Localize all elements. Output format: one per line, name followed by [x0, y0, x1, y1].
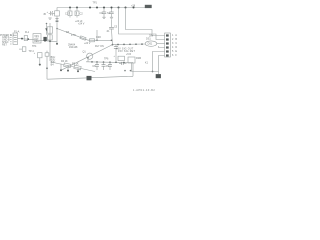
svg-text:+: +: [34, 52, 36, 55]
svg-text:DS1: DS1: [148, 43, 153, 46]
label: [95, 45, 104, 48]
net flag: [56, 20, 59, 22]
junction dot: [135, 43, 137, 45]
svg-text:+28: +28: [131, 4, 136, 7]
junction dot: [56, 28, 58, 30]
svg-text:R2M: R2M: [136, 57, 141, 60]
label rows: [116, 47, 136, 56]
svg-text:RLY ON: RLY ON: [95, 45, 104, 48]
IC U1: [33, 34, 41, 43]
box component K2: [19, 47, 26, 52]
svg-text:REG: REG: [34, 40, 39, 43]
wire vertical mid x50: [49, 23, 51, 61]
wire diagonal D1: [57, 29, 88, 41]
svg-text:5 E: 5 E: [172, 50, 178, 53]
svg-text:+: +: [114, 55, 116, 58]
wire pin5 down-left: [153, 52, 165, 72]
svg-text:P1-A: P1-A: [14, 31, 20, 34]
svg-text:6 F: 6 F: [172, 54, 178, 57]
capacitor C1: [43, 11, 54, 16]
value label text blob: [75, 20, 85, 26]
svg-text:DS1: DS1: [146, 38, 151, 41]
label TP4: [29, 45, 38, 53]
junction dot: [125, 7, 127, 9]
junction dot: [69, 7, 71, 9]
svg-text:CR2: CR2: [96, 36, 101, 39]
electrolytic plus label: [114, 55, 116, 58]
svg-text:+5 R: +5 R: [126, 53, 131, 56]
junction dot: [27, 38, 29, 40]
label R3: [66, 31, 76, 37]
label rows bottom: [68, 44, 78, 50]
capacitor C8: [102, 62, 110, 70]
wire lamp to pin3: [157, 43, 165, 45]
svg-text:1N4148: 1N4148: [69, 46, 78, 49]
svg-text:RET: RET: [2, 43, 7, 46]
junction dot: [129, 43, 131, 45]
svg-text:1 A: 1 A: [172, 34, 178, 37]
svg-text:TP6: TP6: [104, 57, 109, 60]
junction dot: [123, 62, 125, 64]
wire top power rail: [57, 7, 146, 9]
resistor R3 on diagonal: [64, 63, 71, 68]
junction dot: [96, 39, 98, 41]
junction dot: [56, 43, 58, 45]
box component below R2: [47, 35, 52, 40]
junction dot: [117, 44, 119, 46]
ground: [102, 17, 105, 18]
relay K1 dark body: [156, 74, 161, 78]
svg-text:2 B: 2 B: [172, 38, 178, 41]
wire right end vertical x133: [132, 63, 134, 77]
polarized cap dark body: [43, 37, 46, 41]
capacitor C5: [107, 8, 114, 18]
junction dot: [130, 70, 132, 72]
connector J1 left: [13, 33, 18, 44]
svg-text:4 D: 4 D: [172, 46, 178, 49]
net name text rows: [51, 56, 56, 67]
wire pin4 stub: [159, 46, 165, 48]
svg-text:1-APN1-4F-B2: 1-APN1-4F-B2: [133, 89, 155, 92]
label dash: [131, 4, 136, 7]
label above R3: [61, 60, 68, 63]
junction dot: [111, 7, 113, 9]
node TP label: [93, 2, 98, 5]
svg-text:R4 1K: R4 1K: [61, 60, 68, 63]
wire from rail to connector pin 2: [119, 8, 165, 40]
svg-text:28V: 28V: [149, 35, 154, 38]
pin number labels: [172, 34, 178, 57]
power flag arrow: [46, 24, 48, 35]
junction dot: [67, 70, 69, 72]
ground: [48, 18, 51, 19]
lamp DS1: [145, 35, 157, 47]
junction dot: [44, 40, 46, 42]
svg-text:4.7K: 4.7K: [71, 34, 76, 37]
wire vertical bus with capacitor C6: [106, 19, 118, 44]
wire mid-left horizontal: [18, 38, 57, 42]
svg-text:+: +: [47, 11, 49, 14]
junction dot: [109, 61, 111, 63]
junction dot: [124, 70, 126, 72]
capacitor C2: [65, 8, 72, 18]
box component R5: [128, 57, 141, 72]
capacitor C9: [108, 62, 112, 70]
diode CR1: [34, 52, 42, 64]
capacitor C4: [100, 8, 107, 18]
capacitor C3: [75, 8, 83, 18]
transistor Q1 emitter line: [62, 45, 113, 70]
svg-text:TP1: TP1: [93, 2, 98, 5]
wire bottom rail C y62: [86, 61, 133, 64]
wire stub: [77, 67, 79, 70]
capacitor C7: [92, 62, 99, 70]
small box component: [24, 36, 27, 41]
svg-text:3 C: 3 C: [172, 42, 178, 45]
junction dot: [60, 69, 62, 71]
connector J2: [165, 33, 171, 57]
junction dot: [123, 44, 125, 46]
junction dot: [39, 64, 41, 66]
svg-text:+24 V: +24 V: [84, 42, 91, 45]
junction dot: [118, 7, 120, 9]
wire horizontal to V1: [97, 39, 112, 41]
capacitor C10 series marks: [119, 62, 127, 65]
junction dot: [49, 40, 51, 42]
label above relay: [145, 61, 149, 64]
svg-text:C8: C8: [92, 65, 96, 68]
wire pin6 down-left: [159, 56, 165, 75]
pin squares: [166, 34, 169, 56]
resistor R4 on diagonal: [74, 65, 81, 70]
resistor R2 on vertical: [47, 27, 52, 33]
svg-text:K1: K1: [145, 61, 149, 64]
junction dot: [133, 7, 135, 9]
junction dot: [46, 67, 48, 69]
diode CR2: [88, 39, 97, 42]
capacitor C11 on drop x116: [114, 45, 118, 63]
wire diagonal D2: [51, 62, 95, 72]
net label +28V flag: [145, 5, 152, 8]
wire horizontal y70: [132, 71, 159, 73]
junction dot: [103, 7, 105, 9]
junction dot: [21, 38, 23, 40]
label: [96, 36, 101, 39]
wire left end vertical: [46, 56, 48, 79]
wire vertical x57: [56, 23, 58, 44]
svg-text:.01: .01: [106, 30, 110, 33]
pin name labels: [0, 34, 15, 47]
fuse F1 dark body: [87, 76, 92, 80]
label TP small: [104, 57, 109, 60]
svg-text:FL1: FL1: [25, 31, 30, 34]
resistor R1: [55, 8, 60, 19]
connector ref label: [14, 31, 20, 34]
svg-text:C9: C9: [106, 65, 110, 68]
label above R4: [72, 62, 79, 65]
label above: [25, 31, 30, 34]
junction dot: [89, 7, 91, 9]
junction dot: [46, 23, 48, 25]
label: [83, 42, 91, 54]
junction dot: [96, 7, 98, 9]
junction dot: [103, 61, 105, 63]
wire stub: [60, 64, 62, 70]
junction dot: [96, 61, 98, 63]
svg-text:+24 V: +24 V: [78, 23, 85, 26]
junction dot: [91, 61, 93, 63]
box component on x47 drop: [45, 51, 49, 57]
wire from rail to connector pin 1: [126, 8, 165, 36]
junction dot: [77, 70, 79, 72]
wire stub: [67, 65, 69, 70]
junction dot: [76, 7, 78, 9]
junction dot: [115, 61, 117, 63]
box component small: [118, 56, 125, 60]
svg-text:C5: C5: [114, 26, 118, 29]
svg-text:TP4: TP4: [32, 45, 37, 48]
svg-text:Q1: Q1: [83, 50, 87, 53]
wire vertical x97 mid: [96, 30, 98, 40]
pin tick marks: [10, 35, 12, 44]
wire bottom long line: [47, 76, 133, 79]
drawing number text: [133, 89, 155, 92]
junction dot: [141, 43, 143, 45]
ground: [55, 19, 58, 20]
junction dot: [111, 39, 113, 41]
resistor R3 on D1: [80, 36, 86, 40]
ground: [110, 17, 113, 18]
svg-text:C2: C2: [80, 13, 84, 16]
wire collector run to lamp: [113, 43, 146, 46]
